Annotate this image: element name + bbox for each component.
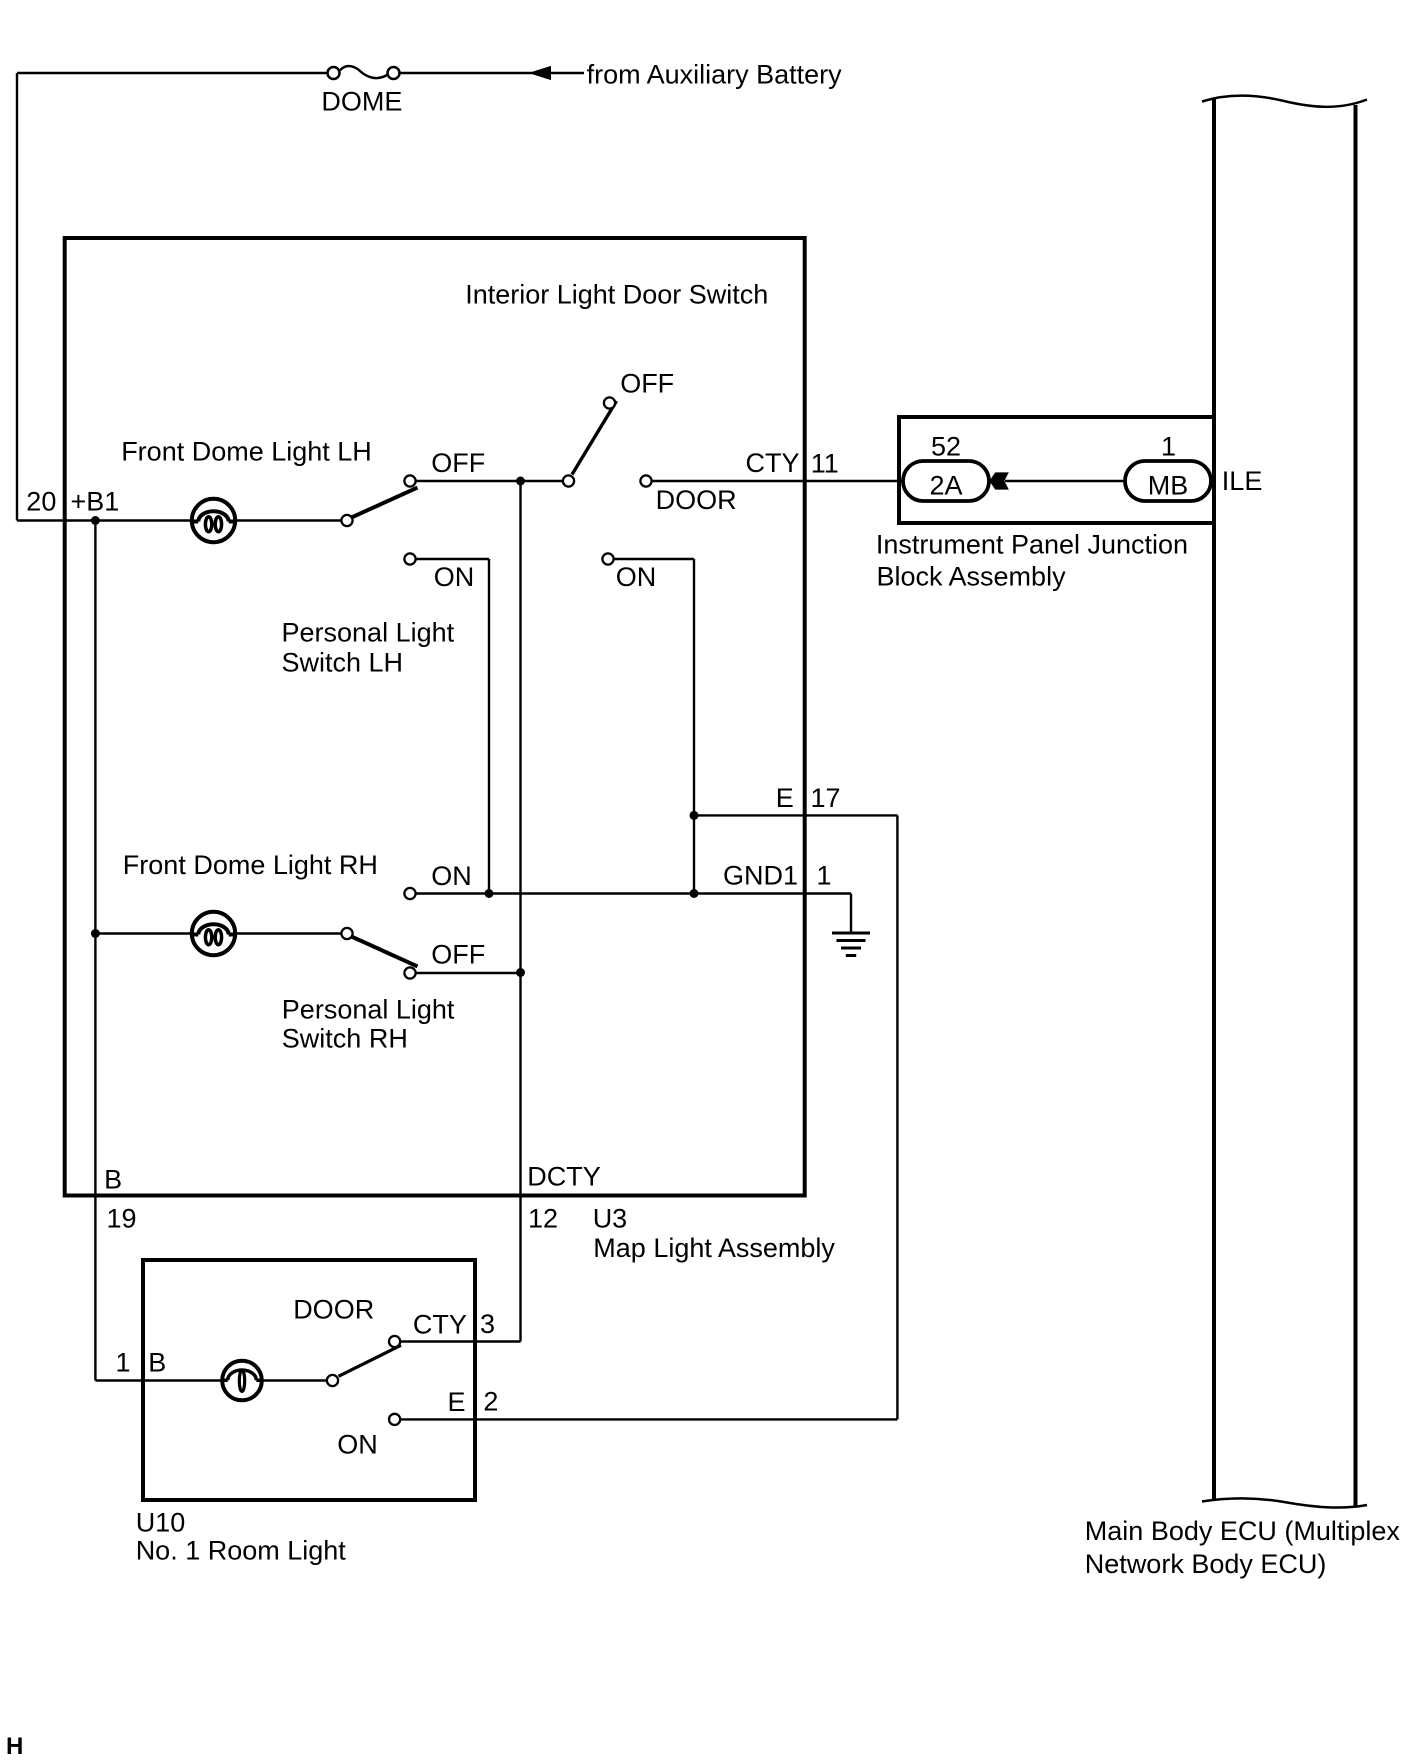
wire room CTY contact to pin 3	[401, 1340, 521, 1342]
box Main Body ECU right edge	[1354, 105, 1358, 1506]
svg-text:19: 19	[107, 1203, 137, 1233]
svg-text:Front Dome Light RH: Front Dome Light RH	[123, 850, 378, 880]
contact personal light RH ON	[404, 888, 415, 899]
wire left vertical drop	[16, 73, 18, 521]
switch personal light LH blade	[352, 488, 418, 518]
svg-text:17: 17	[811, 783, 841, 813]
switch room light blade	[339, 1345, 402, 1376]
svg-text:B: B	[148, 1348, 166, 1378]
svg-text:U3: U3	[593, 1203, 628, 1233]
contact personal light RH OFF	[404, 967, 415, 978]
svg-text:20: 20	[26, 486, 56, 516]
svg-text:Instrument Panel Junction: Instrument Panel Junction	[876, 529, 1188, 559]
svg-text:+B1: +B1	[71, 486, 120, 516]
wire fuse to arrow	[17, 72, 532, 74]
svg-text:OFF: OFF	[620, 368, 674, 398]
svg-text:H: H	[6, 1733, 23, 1760]
switch interior light door blade	[572, 401, 617, 475]
box Interior Light Door Switch	[65, 238, 805, 1196]
box Main Body ECU bottom wavy break	[1202, 1498, 1367, 1507]
fuse 2A capsule	[903, 461, 989, 501]
svg-text:MB: MB	[1148, 471, 1189, 501]
wire E pin 17 to map light	[401, 815, 897, 1419]
svg-text:DOOR: DOOR	[293, 1294, 374, 1324]
contact door switch DOOR	[640, 475, 651, 486]
contact personal light LH ON	[404, 553, 415, 564]
ground symbol	[832, 933, 870, 956]
arrow harness	[990, 473, 1008, 489]
wire RH OFF contact to junction	[416, 972, 520, 974]
connector MB capsule	[1125, 461, 1211, 501]
arrow from auxiliary battery	[530, 67, 551, 80]
svg-text:ON: ON	[431, 861, 472, 891]
wire door switch ON contact down	[614, 559, 694, 894]
wire personal switch LH ON contact down	[416, 559, 489, 894]
svg-text:No. 1 Room Light: No. 1 Room Light	[136, 1535, 347, 1565]
contact room light CTY	[389, 1336, 400, 1347]
wire DCTY vertical bus	[519, 481, 521, 1342]
box Main Body ECU left edge	[1212, 98, 1216, 1500]
svg-text:B: B	[104, 1165, 122, 1195]
svg-text:OFF: OFF	[431, 940, 485, 970]
svg-text:DCTY: DCTY	[527, 1161, 601, 1191]
wire room lamp to switch pivot	[263, 1379, 327, 1381]
contact personal light LH OFF	[404, 475, 415, 486]
svg-text:12: 12	[528, 1203, 558, 1233]
svg-text:Switch RH: Switch RH	[282, 1023, 408, 1053]
svg-text:2A: 2A	[929, 471, 962, 501]
svg-text:OFF: OFF	[431, 448, 485, 478]
node junction dot GND1 mid	[690, 889, 699, 898]
fuse DOME	[328, 66, 400, 79]
svg-text:11: 11	[811, 449, 839, 479]
svg-text:Network Body ECU): Network Body ECU)	[1085, 1549, 1327, 1579]
node junction dot LH ON	[485, 889, 494, 898]
svg-text:Front Dome Light LH: Front Dome Light LH	[121, 437, 372, 467]
svg-text:U10: U10	[136, 1508, 186, 1538]
node junction dot dome OFF	[516, 477, 525, 486]
wire from auxiliary battery to fuse	[549, 72, 584, 74]
svg-text:1: 1	[1161, 431, 1176, 461]
svg-text:1: 1	[116, 1348, 131, 1378]
box No.1 Room Light	[143, 1260, 475, 1500]
wire node +B1 vertical bus	[94, 521, 96, 1381]
contact personal light LH pivot	[341, 515, 352, 526]
svg-text:ON: ON	[337, 1430, 378, 1460]
wire to Front Dome Light RH	[95, 932, 190, 934]
switch personal light RH blade	[352, 937, 418, 967]
box Main Body ECU top wavy break	[1202, 96, 1367, 107]
svg-text:52: 52	[931, 431, 961, 461]
contact door switch OFF	[604, 397, 615, 408]
wire LH OFF contact to junction	[416, 480, 562, 482]
wire GND1 to ground	[416, 894, 851, 934]
svg-text:CTY: CTY	[413, 1310, 467, 1340]
lamp Front Dome Light RH	[192, 912, 235, 955]
contact door switch ON	[602, 553, 613, 564]
wire door switch DOOR contact to CTY pin 11	[652, 480, 903, 482]
node junction dot +B1	[91, 516, 100, 525]
svg-text:DOME: DOME	[321, 87, 402, 117]
svg-text:1: 1	[817, 861, 832, 891]
box Instrument Panel Junction Block	[899, 417, 1214, 523]
svg-text:2: 2	[483, 1387, 498, 1417]
svg-text:from Auxiliary Battery: from Auxiliary Battery	[587, 60, 843, 90]
contact personal light RH pivot	[341, 928, 352, 939]
svg-text:CTY: CTY	[746, 448, 800, 478]
contact room light ON	[389, 1414, 400, 1425]
svg-text:Interior Light Door Switch: Interior Light Door Switch	[465, 279, 768, 309]
svg-text:E: E	[447, 1387, 465, 1417]
contact door switch pivot	[563, 475, 574, 486]
svg-text:Personal Light: Personal Light	[282, 618, 455, 648]
svg-text:Map Light Assembly: Map Light Assembly	[593, 1233, 835, 1263]
node junction dot E	[690, 811, 699, 820]
node junction dot RH feed	[91, 929, 100, 938]
contact room light pivot	[327, 1375, 338, 1386]
wire +B1 feed horizontal	[17, 519, 190, 521]
node junction dot RH OFF	[516, 968, 525, 977]
lamp No.1 Room Light	[222, 1361, 262, 1401]
svg-text:ON: ON	[434, 562, 475, 592]
svg-text:Switch LH: Switch LH	[282, 648, 404, 678]
wire lamp RH to switch pivot	[237, 932, 341, 934]
svg-text:3: 3	[480, 1309, 495, 1339]
lamp Front Dome Light LH	[192, 499, 235, 542]
svg-text:DOOR: DOOR	[656, 485, 737, 515]
wire lamp LH to switch pivot	[237, 519, 341, 521]
svg-text:GND1: GND1	[723, 861, 798, 891]
svg-text:E: E	[776, 783, 794, 813]
wire arrow to MB	[1005, 480, 1125, 482]
svg-text:Main Body ECU (Multiplex: Main Body ECU (Multiplex	[1085, 1516, 1401, 1546]
svg-text:ON: ON	[616, 562, 657, 592]
svg-text:Personal Light: Personal Light	[282, 995, 455, 1025]
svg-text:ILE: ILE	[1222, 466, 1263, 496]
wire to No.1 Room Light pin 1	[95, 1379, 221, 1381]
svg-text:Block Assembly: Block Assembly	[877, 561, 1067, 591]
